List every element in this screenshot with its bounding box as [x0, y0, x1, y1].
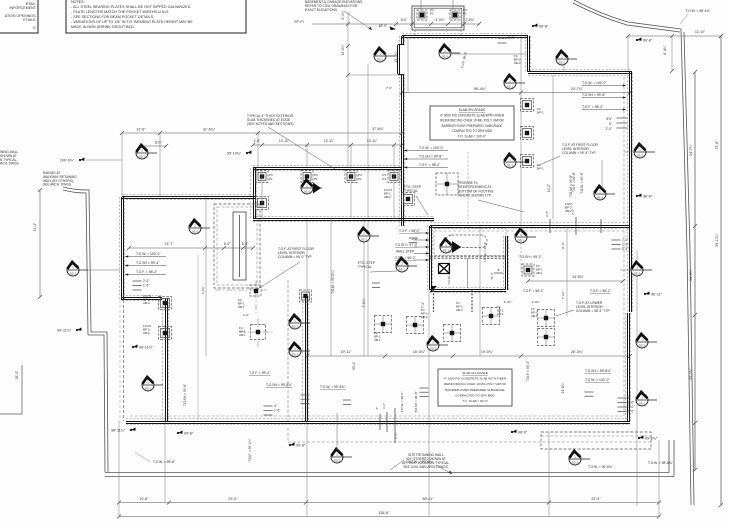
svg-text:T.O.SH = 99'-2": T.O.SH = 99'-2" — [519, 255, 543, 259]
svg-text:59'-10¾": 59'-10¾" — [715, 233, 719, 247]
svg-text:COLUMN = 98'-4" TYP: COLUMN = 98'-4" TYP — [576, 309, 611, 313]
svg-text:4" 3000 PSI CONCRETE SLAB WITH: 4" 3000 PSI CONCRETE SLAB WITH FIBER — [440, 113, 505, 117]
svg-text:21'-0¾": 21'-0¾" — [561, 383, 565, 394]
svg-text:24'-8¾": 24'-8¾" — [572, 275, 584, 279]
svg-text:S5.1: S5.1 — [292, 353, 299, 357]
svg-text:1'-4": 1'-4" — [394, 433, 398, 439]
extension line — [159, 133, 161, 197]
svg-text:31'-2": 31'-2" — [33, 222, 37, 231]
svg-text:S5.1: S5.1 — [334, 459, 341, 463]
central vertical foundation wall — [399, 36, 404, 226]
svg-text:7'-2¾": 7'-2¾" — [561, 291, 565, 299]
steps mach — [409, 238, 417, 243]
footing F4 BP-1 AB-1 row a — [375, 316, 392, 333]
grid line x368 — [367, 64, 369, 356]
svg-text:S5.1: S5.1 — [639, 402, 646, 406]
svg-text:AB-2: AB-2 — [514, 61, 521, 65]
upper interior line y75 — [348, 74, 402, 76]
svg-text:8¾": 8¾" — [606, 117, 612, 121]
svg-text:S5.1: S5.1 — [637, 154, 644, 158]
svg-text:1: 1 — [294, 318, 296, 322]
svg-text:99'-11⅞": 99'-11⅞" — [57, 328, 72, 332]
section marker mach room E — [515, 229, 536, 243]
svg-text:30'-4": 30'-4" — [352, 362, 356, 370]
right outer dim — [719, 34, 723, 507]
svg-text:1: 1 — [194, 223, 196, 227]
dim 24-8 line right body — [526, 279, 625, 283]
footing P3/P1 corridor 2 — [301, 171, 313, 183]
svg-text:NOTES:: NOTES: — [71, 0, 85, 4]
extension x659 — [658, 440, 660, 516]
svg-text:12'-6": 12'-6" — [136, 128, 146, 132]
leader typical slab — [268, 127, 335, 169]
svg-text:T.O.W. = 100'-0": T.O.W. = 100'-0" — [419, 146, 444, 150]
svg-text:99'-0¾": 99'-0¾" — [645, 436, 658, 440]
section marker west — [67, 262, 88, 276]
svg-text:P1: P1 — [463, 12, 467, 16]
line through bottom circle — [336, 413, 338, 450]
svg-text:1'-6": 1'-6" — [274, 409, 280, 413]
svg-text:2'-0": 2'-0" — [508, 36, 514, 40]
svg-text:1: 1 — [306, 183, 308, 187]
svg-text:AB-1: AB-1 — [421, 315, 428, 319]
svg-text:126'-6": 126'-6" — [378, 511, 390, 515]
svg-text:1: 1 — [509, 157, 511, 161]
svg-text:RCH. DWGS.: RCH. DWGS. — [0, 162, 20, 166]
machine room pit slot — [446, 235, 487, 248]
svg-text:T.O.F. = 98'-2": T.O.F. = 98'-2" — [399, 229, 421, 233]
svg-text:T.O.F. = 98'-2": T.O.F. = 98'-2" — [419, 163, 441, 167]
svg-text:1: 1 — [641, 395, 643, 399]
svg-text:COMPACTED TO 95% MDD: COMPACTED TO 95% MDD — [455, 393, 495, 397]
corridor north wall — [253, 165, 402, 170]
svg-text:1: 1 — [574, 454, 576, 458]
svg-text:P1: P1 — [314, 177, 318, 181]
svg-text:6'-6": 6'-6" — [242, 242, 248, 246]
svg-text:S5.1: S5.1 — [639, 344, 646, 348]
svg-text:S5.1: S5.1 — [361, 238, 368, 242]
section marker A — [136, 145, 157, 159]
left dim 31-2 — [38, 188, 42, 299]
flag 95-10 — [227, 150, 252, 155]
footing F4 P2 BP-2 — [159, 327, 172, 340]
slab edge dashed x288 — [287, 280, 289, 421]
svg-text:99'-8": 99'-8" — [184, 431, 194, 435]
section marker bottom b — [569, 451, 590, 465]
svg-text:23'-7": 23'-7" — [164, 242, 174, 246]
svg-text:99'-8": 99'-8" — [539, 24, 549, 28]
bottom dim line segments — [117, 501, 661, 505]
dim 23-7 — [127, 246, 255, 250]
svg-text:37'-8": 37'-8" — [715, 140, 719, 149]
grid line x553 — [552, 75, 554, 219]
svg-text:S5.1: S5.1 — [139, 155, 146, 159]
svg-text:T.O.SH = 99'-8": T.O.SH = 99'-8" — [419, 155, 443, 159]
machine room south wall — [430, 287, 506, 292]
svg-text:P1: P1 — [269, 177, 273, 181]
svg-text:T.O.SH = 99'-8¾": T.O.SH = 99'-8¾" — [266, 383, 293, 387]
north wall of east body — [528, 70, 632, 75]
extension line — [350, 145, 352, 168]
svg-text:7'-6": 7'-6" — [386, 86, 392, 90]
svg-text:1: 1 — [641, 337, 643, 341]
footing F4 BP-1 AB-1 row b — [407, 317, 424, 334]
left wing west wall — [119, 197, 124, 300]
svg-text:98'-0": 98'-0" — [518, 430, 528, 434]
stair core inner slot — [233, 212, 246, 280]
svg-text:1'-6": 1'-6" — [254, 139, 261, 143]
svg-text:23'-0¾": 23'-0¾" — [689, 367, 693, 379]
svg-text:19'-0¾": 19'-0¾" — [481, 350, 494, 354]
svg-text:4'-0¾": 4'-0¾" — [504, 300, 513, 304]
bearing plate notes box — [66, 0, 246, 33]
svg-text:1'-0": 1'-0" — [628, 401, 634, 405]
svg-text:T.O.F. = 98'-2": T.O.F. = 98'-2" — [582, 105, 604, 109]
svg-text:60'-11": 60'-11" — [423, 497, 435, 501]
section arrow on corridor marker — [313, 183, 321, 194]
grid x198 — [197, 255, 199, 420]
svg-text:16'-3¾": 16'-3¾" — [413, 350, 426, 354]
interior wall x305 — [303, 296, 308, 421]
steps bottom center — [420, 388, 429, 396]
section marker center — [427, 337, 448, 351]
footing F4 BP-1 col line b — [521, 127, 534, 140]
stoop dims — [394, 22, 481, 26]
svg-text:4": 4" — [274, 404, 277, 408]
section marker corridor — [301, 180, 322, 194]
stub below marker top d — [563, 64, 565, 72]
site retaining wall south — [105, 472, 669, 474]
dashed line x468 — [467, 152, 469, 226]
flag 100 left — [60, 157, 85, 162]
svg-text:P1: P1 — [358, 177, 362, 181]
svg-text:AB-2: AB-2 — [456, 308, 463, 312]
svg-text:6'-0": 6'-0" — [224, 242, 230, 246]
steps bottom left b — [301, 395, 310, 403]
svg-text:99'-8": 99'-8" — [296, 443, 306, 447]
general notes box (cut off at left edge) — [0, 0, 38, 33]
flag 98-0 — [511, 429, 528, 434]
svg-text:T.O.SH = 99'-8": T.O.SH = 99'-8" — [183, 384, 187, 406]
svg-text:BARRIER OVER PREPARED SUBGRADE: BARRIER OVER PREPARED SUBGRADE — [445, 388, 504, 392]
svg-text:WHERE SHOWN TYP.: WHERE SHOWN TYP. — [458, 194, 492, 198]
svg-text:100'-0⅞": 100'-0⅞" — [60, 158, 75, 162]
footing P3/P1 corridor 1 — [256, 171, 268, 183]
footing F4 P3 on central wall — [402, 193, 415, 206]
bottom overall dim 126-6 — [117, 515, 661, 519]
grid line x331 — [330, 219, 332, 356]
svg-text:11'-2": 11'-2" — [561, 242, 565, 249]
svg-text:7'-4": 7'-4" — [421, 302, 425, 308]
steps center a — [372, 283, 380, 288]
svg-text:T.O.W. = 101'-4": T.O.W. = 101'-4" — [447, 263, 451, 285]
section marker mid right — [504, 154, 525, 168]
svg-text:1: 1 — [294, 346, 296, 350]
svg-text:AB-1: AB-1 — [239, 333, 246, 337]
steps bottom left a — [264, 406, 273, 415]
section marker east a — [594, 186, 615, 200]
svg-text:1: 1 — [639, 147, 641, 151]
steps right body — [480, 133, 489, 138]
svg-text:T.O.W. = 99'-8¾": T.O.W. = 99'-8¾" — [320, 385, 346, 389]
svg-text:1'-0": 1'-0" — [622, 243, 628, 247]
section marker top d — [556, 51, 577, 65]
right dim line segments — [693, 70, 697, 472]
section marker bottom a — [331, 449, 352, 463]
corridor south wall — [253, 216, 434, 221]
elevator pit hatched footing — [439, 264, 450, 274]
svg-text:TYPICAL: TYPICAL — [358, 265, 372, 269]
svg-text:S5.1: S5.1 — [559, 61, 566, 65]
footing F4 BP-1 col line c — [521, 155, 534, 168]
svg-text:S5.1: S5.1 — [597, 196, 604, 200]
extension x637 right — [636, 250, 638, 506]
svg-text:98'-8": 98'-8" — [643, 194, 653, 198]
interior step wall — [122, 295, 162, 300]
svg-text:T.O. SLAB = 100'-0": T.O. SLAB = 100'-0" — [458, 135, 486, 139]
east exterior wall lower — [625, 313, 630, 422]
svg-text:2'-0¾": 2'-0¾" — [532, 300, 541, 304]
section marker east c — [631, 262, 652, 276]
top right dim — [626, 34, 723, 38]
site retaining wall east — [681, 29, 691, 505]
footing F4 BP-1 col line a — [521, 99, 534, 112]
svg-text:1: 1 — [401, 261, 403, 265]
leader from section marker top b — [452, 53, 526, 55]
svg-text:TYPICAL: TYPICAL — [404, 189, 418, 193]
svg-text:AB-2: AB-2 — [565, 209, 572, 213]
svg-text:BARRIER OVER PREPARED SUBGRADE: BARRIER OVER PREPARED SUBGRADE — [441, 124, 502, 128]
section marker east e — [636, 392, 657, 406]
section marker east b — [634, 144, 655, 158]
stub above marker east a — [601, 160, 603, 188]
svg-text:AB-1: AB-1 — [531, 314, 538, 318]
section marker below corridor — [358, 228, 379, 242]
svg-text:COMPACTED TO 95% MDD: COMPACTED TO 95% MDD — [452, 129, 493, 133]
inner right dim line — [694, 72, 696, 470]
svg-text:T.O.SH = 97'-0": T.O.SH = 97'-0" — [395, 243, 419, 247]
footing F4 BP-1 AB-1 row d — [483, 308, 500, 325]
section marker center low — [289, 343, 310, 357]
corridor col line b — [350, 168, 352, 219]
svg-text:- SEE SECTIONS FOR BEAM POCKET: - SEE SECTIONS FOR BEAM POCKET DETAILS. — [71, 15, 154, 19]
svg-text:2'-8¾": 2'-8¾" — [465, 18, 475, 22]
svg-text:96'-4¾": 96'-4¾" — [474, 87, 487, 91]
extension line grid A — [121, 133, 123, 197]
svg-text:24'-7¾": 24'-7¾" — [689, 143, 693, 155]
svg-text:S5.1: S5.1 — [399, 268, 406, 272]
svg-text:T.O.W. = 99'-8": T.O.W. = 99'-8" — [153, 460, 176, 464]
corridor dims 10-11 — [251, 143, 404, 147]
svg-text:96'-11": 96'-11" — [651, 292, 663, 296]
svg-text:T.O.W. = 99'-6¾": T.O.W. = 99'-6¾" — [588, 465, 614, 469]
svg-text:WALL STEP: WALL STEP — [396, 250, 415, 254]
svg-text:5'-4": 5'-4" — [622, 247, 628, 251]
svg-text:T.O.F. = 98'-2": T.O.F. = 98'-2" — [136, 270, 158, 274]
svg-text:98'-11¾": 98'-11¾" — [111, 428, 126, 432]
svg-text:- VARIATIONS OF UP TO 1/8" IN: - VARIATIONS OF UP TO 1/8" IN T.O. BEARI… — [71, 20, 193, 24]
interior west foundation wall — [163, 298, 168, 421]
svg-text:COLUMN = 99'-4" TYP: COLUMN = 99'-4" TYP — [562, 151, 597, 155]
section marker top b — [439, 45, 460, 59]
flag 99-8 top right — [636, 37, 653, 42]
svg-text:1: 1 — [363, 231, 365, 235]
svg-text:T.O.W. = 99'-8": T.O.W. = 99'-8" — [580, 172, 584, 193]
svg-text:2'-0": 2'-0" — [412, 237, 418, 241]
section marker center mid — [289, 315, 310, 329]
steps center b — [343, 400, 351, 405]
section marker east d — [636, 334, 657, 348]
west slab edge dashed — [123, 300, 125, 421]
outer right dim line — [720, 36, 722, 505]
east exterior wall upper — [627, 72, 632, 313]
svg-text:23'-0": 23'-0" — [228, 497, 238, 501]
svg-text:T.O.F. = 99'-8": T.O.F. = 99'-8" — [572, 172, 576, 192]
level split wall — [430, 223, 630, 228]
leader from west marker — [80, 269, 120, 271]
svg-text:S5.1: S5.1 — [430, 347, 437, 351]
svg-text:10'-11": 10'-11" — [324, 139, 335, 143]
machine room inner dashed zone — [434, 229, 506, 256]
slab-on-grade note box lower — [438, 369, 512, 406]
svg-text:11¾": 11¾" — [154, 141, 162, 145]
site retaining wall west — [63, 190, 105, 472]
svg-text:6": 6" — [609, 122, 612, 126]
svg-text:S5.1: S5.1 — [377, 58, 384, 62]
footing F4 BP-1 AB-1 row c — [444, 325, 461, 342]
svg-text:3'-0¾": 3'-0¾" — [201, 286, 205, 294]
svg-text:5'-0": 5'-0" — [628, 410, 634, 414]
svg-text:BP-1: BP-1 — [537, 110, 544, 114]
section marker top a — [374, 48, 395, 62]
grid line x429 — [428, 290, 430, 516]
svg-text:AB-2: AB-2 — [384, 195, 391, 199]
svg-text:BP-1: BP-1 — [537, 166, 544, 170]
svg-text:6'-0": 6'-0" — [401, 18, 408, 22]
svg-text:98'-11⅞": 98'-11⅞" — [139, 345, 154, 349]
dim 8-4 line — [671, 36, 673, 71]
extension x549 — [548, 432, 550, 516]
svg-text:5'-4¾": 5'-4¾" — [341, 10, 345, 19]
svg-text:S5.1: S5.1 — [507, 85, 514, 89]
svg-text:REINFORCING OVER 10 MIL POLY V: REINFORCING OVER 10 MIL POLY VAPOR — [440, 119, 504, 123]
interior dim line 19-11 etc — [305, 354, 632, 358]
svg-text:BP-9": BP-9" — [379, 24, 387, 28]
svg-text:T.O.SH = 99'-8": T.O.SH = 99'-8" — [582, 93, 606, 97]
svg-text:S5.1: S5.1 — [572, 461, 579, 465]
svg-text:7'-0": 7'-0" — [622, 238, 628, 242]
svg-text:SLAB-ON-GRADE: SLAB-ON-GRADE — [459, 108, 485, 112]
svg-text:S.: S. — [33, 26, 36, 30]
svg-text:AB-1: AB-1 — [374, 338, 381, 342]
top stoop slab double outline — [412, 6, 464, 30]
svg-text:ETAILS.: ETAILS. — [23, 18, 36, 22]
section marker pit — [440, 239, 461, 253]
svg-text:T.O.SH = 96'-0": T.O.SH = 96'-0" — [483, 242, 487, 263]
svg-text:26'-3¾": 26'-3¾" — [571, 350, 584, 354]
steps east top — [617, 118, 628, 128]
dim 11-3/4 — [138, 144, 168, 148]
section marker top c — [504, 75, 525, 89]
svg-text:T.O.F. = 99'-4": T.O.F. = 99'-4" — [249, 371, 271, 375]
footing F4 P9 BP-2 — [159, 297, 172, 310]
svg-text:T.O.W. = 98'-6¾": T.O.W. = 98'-6¾" — [686, 9, 712, 13]
svg-text:24'-3¾": 24'-3¾" — [689, 268, 693, 280]
machine room west wall — [427, 226, 432, 291]
svg-text:8'-4¾": 8'-4¾" — [663, 44, 667, 54]
svg-text:- PLATE LENGTHS MATCH THE POCK: - PLATE LENGTHS MATCH THE POCKET WIDTHS … — [71, 10, 169, 14]
stair core dashed outer — [214, 204, 260, 288]
svg-text:8": 8" — [498, 268, 501, 272]
stub walls below machine room — [433, 290, 435, 312]
extension line x348 — [347, 12, 349, 168]
svg-text:S5.1: S5.1 — [292, 325, 299, 329]
svg-text:T.O.W. = 99'-0¾": T.O.W. = 99'-0¾" — [331, 270, 335, 294]
upper wing east wall — [525, 36, 530, 72]
svg-text:1'-6": 1'-6" — [143, 284, 149, 288]
svg-text:SLAB-ON-GRADE: SLAB-ON-GRADE — [462, 371, 488, 375]
slab-on-grade note box upper — [430, 106, 514, 140]
apron dashed footing line below south wall — [288, 441, 651, 443]
corridor west wall — [251, 168, 256, 219]
svg-text:MADE IN NON-SHRINK GROUT BED.: MADE IN NON-SHRINK GROUT BED. — [71, 25, 135, 29]
svg-text:31'-6¾": 31'-6¾" — [203, 128, 216, 132]
footing F4 interior large — [436, 173, 458, 195]
inner dashed face along split wall — [434, 230, 626, 232]
flag 96-11 east — [644, 291, 663, 296]
extension x165 — [164, 421, 166, 502]
corridor col line c — [393, 168, 395, 219]
section marker mach room W — [396, 258, 417, 272]
inner dashed face along south wall — [130, 415, 624, 417]
footing P3/P1 corridor 3 — [345, 171, 357, 183]
svg-text:REINFORCING OVER 10 MIL POLY V: REINFORCING OVER 10 MIL POLY VAPOR — [444, 382, 507, 386]
grid x567 — [566, 226, 568, 316]
svg-text:37'-6¾": 37'-6¾" — [372, 127, 384, 131]
svg-text:14'-2": 14'-2" — [547, 184, 551, 192]
footing at corridor/left wing corner — [256, 197, 269, 210]
step ticks crossing split wall — [550, 217, 601, 235]
flag 98-8 east — [636, 193, 653, 198]
steps east mid — [612, 240, 621, 249]
flag 98-11 west — [132, 344, 154, 349]
svg-text:S5.1: S5.1 — [634, 272, 641, 276]
section cut arrow on pit marker — [452, 241, 461, 253]
svg-text:AB-2: AB-2 — [143, 301, 150, 305]
south exterior wall — [126, 419, 630, 424]
svg-text:1: 1 — [432, 340, 434, 344]
svg-text:T.O.F. = 99'-4¾": T.O.F. = 99'-4¾" — [248, 439, 252, 462]
svg-text:S5.1: S5.1 — [192, 230, 199, 234]
interior footing F4 BP-1 AB-1 left wing b — [240, 318, 274, 347]
svg-text:8": 8" — [628, 396, 631, 400]
svg-text:EXACT ELEVATIONS: EXACT ELEVATIONS — [305, 8, 338, 12]
svg-text:11'-10": 11'-10" — [695, 30, 706, 34]
inner dashed face along east wall — [623, 77, 625, 418]
flag 99-11 left — [57, 327, 81, 332]
svg-text:T.O. SLAB = 90'-0": T.O. SLAB = 90'-0" — [462, 399, 488, 403]
svg-text:T.O.W. = 100'-0": T.O.W. = 100'-0" — [136, 252, 161, 256]
svg-text:(99'-8"): (99'-8") — [294, 20, 304, 24]
flag 98-11 bottom — [111, 427, 135, 432]
grid line x206 — [205, 197, 207, 356]
footing P3/P1 stoop right — [450, 10, 460, 20]
steps bottom right a — [585, 392, 594, 396]
svg-text:1: 1 — [72, 265, 74, 269]
svg-text:SEE ARCH. DWGS.: SEE ARCH. DWGS. — [43, 183, 72, 187]
svg-text:19'-11": 19'-11" — [341, 350, 353, 354]
north wall of upper garage wing — [402, 33, 528, 38]
